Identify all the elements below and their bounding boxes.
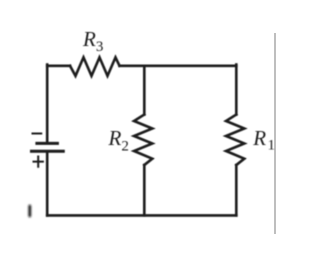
- battery: [32, 143, 64, 151]
- wire: right branch upper (top-right corner to R1): [235, 65, 238, 115]
- wire: middle branch upper (top node to R2): [143, 66, 146, 115]
- wire: middle branch lower (R2 to bottom node): [143, 165, 146, 215]
- wire: top-left corner to R3 left lead: [47, 65, 70, 68]
- resistor R3: [70, 57, 120, 76]
- wire: R3 right lead to top-right corner: [120, 65, 237, 68]
- resistor R1: [226, 115, 244, 166]
- wire: right branch lower (R1 to bottom-right corner): [235, 165, 238, 215]
- wire: left branch lower (battery to bottom-left corner): [46, 153, 49, 216]
- resistor R2: [134, 115, 152, 166]
- wire: left branch upper (top-left corner down to battery): [46, 65, 49, 143]
- label plus: [34, 157, 43, 167]
- label minus: [33, 133, 42, 135]
- wire: bottom (bottom-left corner to bottom-right corner): [47, 214, 236, 217]
